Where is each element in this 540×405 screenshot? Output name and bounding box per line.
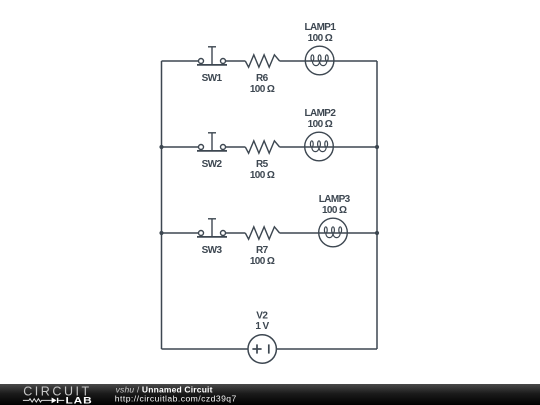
- svg-text:SW1: SW1: [202, 73, 223, 84]
- wire branch3 left: [162, 232, 199, 234]
- lamp LAMP2: [305, 132, 334, 161]
- svg-text:LAB: LAB: [66, 396, 93, 405]
- wire R7 to right rail: [280, 232, 377, 234]
- switch SW3: [197, 219, 227, 237]
- svg-text:1 V: 1 V: [255, 321, 269, 332]
- wire R6 to right rail: [280, 60, 377, 62]
- wire left rail: [161, 61, 163, 349]
- wire R5 to right rail: [280, 146, 377, 148]
- svg-text:http://circuitlab.com/czd39q7: http://circuitlab.com/czd39q7: [115, 393, 237, 403]
- logo resistor squiggle: [23, 399, 52, 402]
- svg-text:100 Ω: 100 Ω: [250, 84, 275, 95]
- svg-text:SW3: SW3: [202, 245, 223, 256]
- svg-text:100 Ω: 100 Ω: [250, 170, 275, 181]
- svg-text:100 Ω: 100 Ω: [250, 256, 275, 267]
- svg-text:SW2: SW2: [202, 159, 223, 170]
- wire SW3 to R7: [226, 232, 246, 234]
- wire branch1 left: [162, 60, 199, 62]
- wire right rail: [376, 61, 378, 349]
- svg-text:R6: R6: [256, 73, 269, 84]
- wire bottom right segment: [276, 348, 377, 350]
- node junction right rail branch 2: [375, 145, 379, 149]
- svg-text:LAMP2: LAMP2: [304, 108, 336, 119]
- lamp LAMP3: [319, 218, 348, 247]
- resistor R5: [245, 141, 279, 153]
- svg-text:LAMP1: LAMP1: [304, 22, 336, 33]
- resistor R6: [245, 55, 279, 67]
- wire branch2 left: [162, 146, 199, 148]
- switch SW2: [197, 133, 227, 151]
- lamp LAMP1: [305, 46, 334, 75]
- svg-text:R5: R5: [256, 159, 269, 170]
- node junction left rail branch 2: [159, 145, 163, 149]
- wire SW2 to R5: [226, 146, 246, 148]
- node junction left rail branch 3: [159, 231, 163, 235]
- svg-text:LAMP3: LAMP3: [319, 194, 351, 205]
- svg-text:100 Ω: 100 Ω: [322, 205, 347, 216]
- svg-text:R7: R7: [256, 245, 269, 256]
- wire bottom left segment: [162, 348, 249, 350]
- svg-text:V2: V2: [256, 311, 268, 322]
- svg-text:100 Ω: 100 Ω: [308, 119, 333, 130]
- switch SW1: [197, 47, 227, 65]
- logo diode: [52, 398, 65, 404]
- voltage source V2: [248, 335, 276, 363]
- svg-text:100 Ω: 100 Ω: [308, 33, 333, 44]
- node junction right rail branch 3: [375, 231, 379, 235]
- resistor R7: [245, 227, 279, 239]
- wire SW1 to R6: [226, 60, 246, 62]
